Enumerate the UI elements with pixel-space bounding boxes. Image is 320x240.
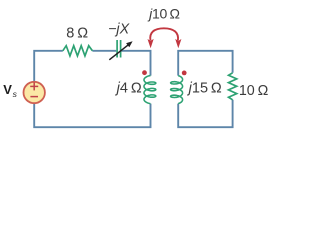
capacitor -jX plate 1 [116, 40, 118, 58]
svg-text:j10 Ω: j10 Ω [147, 5, 179, 21]
voltage source Vs [24, 82, 45, 103]
mutual coupling arc [150, 28, 178, 40]
inductor j15 coil [171, 76, 183, 104]
svg-text:j4 Ω: j4 Ω [115, 80, 142, 96]
capacitor -jX plate 2 [120, 40, 122, 58]
dot primary [142, 70, 147, 75]
svg-text:8 Ω: 8 Ω [66, 26, 88, 42]
wire resistor to capacitor [92, 50, 116, 52]
wire secondary coil top to 10ohm resistor [178, 51, 232, 76]
wire secondary loop bottom [178, 100, 232, 127]
resistor 10 ohm [229, 73, 237, 100]
svg-text:10 Ω: 10 Ω [239, 83, 269, 99]
resistor 8 ohm [63, 46, 93, 56]
svg-text:s: s [13, 89, 18, 99]
dot secondary [182, 71, 187, 76]
svg-text:j15 Ω: j15 Ω [187, 80, 222, 96]
svg-text:V: V [3, 82, 12, 97]
svg-text:−jX: −jX [108, 22, 130, 38]
wire capacitor to primary coil top [122, 51, 151, 76]
wire primary coil bottom to source [34, 103, 150, 127]
capacitor variable arrow [109, 44, 129, 60]
wire top-left from source to resistor [34, 51, 63, 82]
inductor j4 coil [144, 76, 156, 104]
